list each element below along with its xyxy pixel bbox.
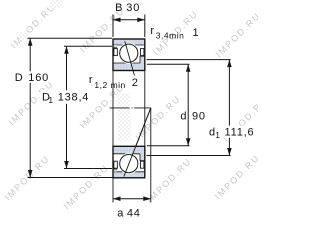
svg-text:d: d: [180, 110, 187, 122]
svg-text:D: D: [15, 72, 24, 84]
svg-text:1: 1: [193, 27, 200, 39]
svg-text:3,4min: 3,4min: [156, 31, 185, 41]
svg-text:90: 90: [192, 110, 206, 122]
svg-text:111,6: 111,6: [225, 127, 255, 139]
svg-text:1: 1: [215, 130, 220, 140]
svg-text:1,2 min: 1,2 min: [94, 80, 125, 90]
svg-text:r: r: [150, 25, 154, 37]
svg-text:160: 160: [28, 72, 49, 84]
svg-text:a: a: [117, 207, 124, 219]
svg-text:138,4: 138,4: [58, 92, 90, 104]
svg-text:B: B: [115, 2, 123, 14]
svg-text:2: 2: [132, 77, 139, 89]
svg-text:r: r: [89, 74, 93, 86]
svg-text:1: 1: [48, 95, 53, 105]
svg-text:30: 30: [126, 2, 140, 14]
svg-text:44: 44: [127, 207, 141, 219]
